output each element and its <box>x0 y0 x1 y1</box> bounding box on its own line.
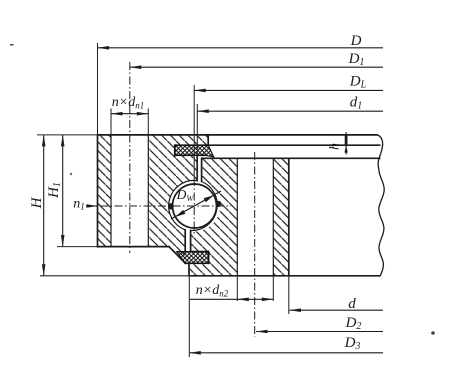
dimension D <box>98 33 384 50</box>
hole edges <box>236 158 238 275</box>
extension line for DL (raceway center) <box>193 85 195 178</box>
extension line for n x dn2 right <box>272 276 274 301</box>
raceway arc left <box>169 180 198 229</box>
left ring outline <box>98 135 209 263</box>
dimension D3 <box>189 335 383 355</box>
bolt hole in left ring (n x dn1) <box>111 135 148 247</box>
top seal (cross hatched) <box>175 145 214 157</box>
extension line for n x dn1 left <box>110 109 112 135</box>
dimension H1 <box>46 135 65 247</box>
white gap around ball (raceway) <box>169 181 220 232</box>
scan specks <box>10 44 14 46</box>
svg-text:D: D <box>350 33 362 49</box>
ball (rolling element Dw) <box>173 184 217 228</box>
dimension h <box>328 132 348 155</box>
extension line for n x dn1 right <box>147 109 149 135</box>
centerline: left ring bolt hole axis (D1 extension) <box>129 62 131 253</box>
dimension DL <box>194 74 383 93</box>
raceway arc right <box>191 182 218 231</box>
right ring top face line to break <box>202 157 381 159</box>
centerline: ball vertical axis <box>193 178 195 236</box>
extension line for D3 <box>188 276 190 357</box>
dimension n x dn1 <box>111 95 148 116</box>
dimension D1 <box>130 51 383 69</box>
dimension H <box>29 135 46 276</box>
outer ring (left, sectioned) <box>98 135 209 263</box>
svg-text:H: H <box>29 196 45 209</box>
right ring outline <box>185 158 288 275</box>
dimension n x dn2 <box>190 283 273 301</box>
centerline: right ring bolt hole axis (D2 extension) <box>254 152 256 337</box>
dimension d1 <box>197 95 383 114</box>
bottom seal (cross hatched) <box>177 252 209 264</box>
label n1 with leader <box>73 197 97 212</box>
extension line for n x dn2 left <box>236 276 238 301</box>
svg-text:h: h <box>328 143 343 150</box>
left ring bottom ext <box>57 246 98 248</box>
top face line (both ring top + support plate top) <box>37 134 98 136</box>
centerline: horizontal bolt axis through ball center <box>100 205 231 207</box>
extension line for D (ring outer edge) <box>97 43 99 135</box>
svg-text:d: d <box>348 296 356 312</box>
dimension D2 <box>256 315 383 333</box>
bolt hole in right ring (n x dn2) <box>237 158 273 275</box>
contact marks <box>168 203 173 209</box>
ball diameter line Dw <box>171 191 221 219</box>
plate bottom / seal top line <box>175 144 381 146</box>
labyrinth gap above ball <box>197 155 201 195</box>
extension line for d (bore edge) <box>288 276 290 314</box>
labyrinth gap below ball <box>185 218 190 252</box>
inner ring (right, sectioned) <box>189 158 289 275</box>
extension line for d1 (labyrinth gap) <box>196 104 198 180</box>
hole edges <box>110 135 112 247</box>
break (wavy) line <box>378 135 385 276</box>
bottom line (right ring bottom + support) <box>40 275 189 277</box>
dimension d <box>290 296 384 312</box>
